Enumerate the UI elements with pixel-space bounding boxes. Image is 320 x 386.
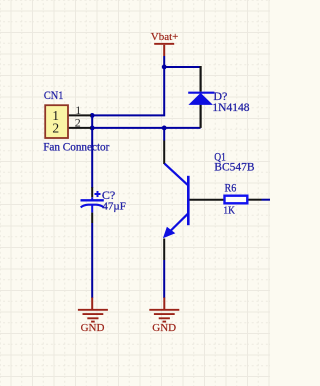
resistor right pin [249,199,262,201]
transistor Q1 emitter diagonal [171,214,188,231]
wire resistor right to sheet edge [262,199,271,201]
transistor Q1 base bar [187,176,190,225]
connector pin 1 line [69,114,91,116]
ground symbol left bars [78,310,108,322]
wire Vbat vertical down to pin1 wire [91,56,164,115]
capacitor bottom pin [91,213,93,223]
transistor Q1 collector diagonal [165,164,188,185]
connector CN1 body [45,105,68,138]
resistor R6 body [225,196,248,204]
junction pin2/collector branch [162,126,167,131]
wire collector branch [163,128,165,141]
wire cap to ground [91,223,93,298]
wire Vbat junction to diode top [164,66,200,68]
svg-text:47µF: 47µF [102,201,125,213]
svg-text:D?: D? [213,89,227,103]
capacitor top pin [91,187,93,197]
junction at Vbat node [162,65,167,70]
svg-text:BC547B: BC547B [214,161,255,173]
diode bottom pin [200,105,202,128]
svg-text:CN1: CN1 [44,88,64,102]
capacitor C? bottom plate [81,205,104,208]
wire cap branch vertical [91,115,93,188]
capacitor C? top plate [81,199,104,201]
power port Vbat+ bar symbol [154,43,174,56]
ground symbol right bars [149,310,179,322]
junction pin2/cap branch [90,126,95,131]
capacitor stub below plate [91,205,93,213]
svg-text:1K: 1K [223,204,235,216]
svg-text:GND: GND [152,322,176,334]
diode D? triangle [188,93,213,105]
svg-text:2: 2 [52,121,59,136]
junction pin1/cap branch [90,113,95,118]
svg-text:Fan Connector: Fan Connector [43,142,109,154]
diode D? cathode bar [188,92,214,94]
ground symbol left stub [91,298,93,310]
transistor Q1 emitter arrow [163,227,175,239]
svg-text:1N4148: 1N4148 [212,102,249,114]
svg-text:2: 2 [75,115,81,129]
transistor Q1 emitter pin [163,239,165,261]
wire emitter to ground [163,260,165,298]
ground symbol right stub [163,298,165,310]
wire pin2 net horizontal to diode bottom [91,127,201,129]
svg-text:GND: GND [81,322,105,334]
diode top pin [200,66,202,92]
transistor Q1 base pin [190,199,224,201]
connector pin 2 line [69,127,91,129]
svg-text:Vbat+: Vbat+ [151,31,179,43]
capacitor plus sign [95,191,101,197]
transistor Q1 collector pin [163,141,165,165]
svg-text:R6: R6 [225,181,237,195]
